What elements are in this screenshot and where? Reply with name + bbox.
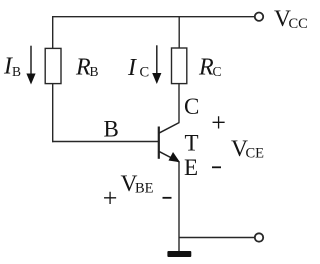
label plus VBE	[103, 184, 118, 213]
svg-text:CC: CC	[289, 16, 308, 32]
label VCC	[274, 6, 308, 32]
resistor RB	[45, 48, 61, 83]
svg-text:B: B	[90, 64, 99, 79]
svg-text:B: B	[12, 64, 21, 79]
svg-text:I: I	[127, 55, 137, 81]
label IB	[3, 54, 21, 80]
current arrow IB	[26, 46, 35, 85]
label RB	[75, 55, 99, 81]
svg-text:T: T	[185, 130, 199, 155]
current arrow IC	[152, 45, 161, 84]
svg-text:E: E	[184, 155, 198, 180]
label VCE	[231, 136, 264, 162]
wire base	[52, 141, 159, 143]
wire left top	[52, 16, 54, 48]
label T	[185, 130, 199, 155]
svg-text:C: C	[184, 94, 199, 119]
wire RC top	[178, 16, 180, 48]
label E	[184, 155, 198, 180]
svg-text:C: C	[213, 64, 222, 79]
label minus VBE	[163, 197, 172, 199]
label B	[104, 117, 119, 142]
terminal bottom	[255, 233, 263, 241]
wire emitter	[178, 162, 180, 252]
svg-text:B: B	[104, 117, 119, 142]
label RC	[198, 55, 222, 81]
transistor T	[159, 123, 180, 163]
svg-text:BE: BE	[135, 180, 154, 196]
label minus VCE	[212, 166, 221, 168]
label C	[184, 94, 199, 119]
svg-text:+: +	[211, 108, 226, 137]
ground	[167, 251, 191, 257]
svg-text:C: C	[140, 65, 150, 81]
svg-text:+: +	[103, 184, 118, 213]
label plus VCE	[211, 108, 226, 137]
wire left lower	[52, 84, 54, 143]
resistor RC	[172, 48, 187, 84]
label IC	[127, 55, 149, 81]
wire collector	[178, 84, 180, 123]
wire top rail	[53, 16, 255, 18]
wire bottom	[179, 237, 254, 239]
terminal VCC	[255, 13, 263, 21]
label VBE	[121, 171, 154, 197]
svg-text:CE: CE	[246, 146, 265, 162]
